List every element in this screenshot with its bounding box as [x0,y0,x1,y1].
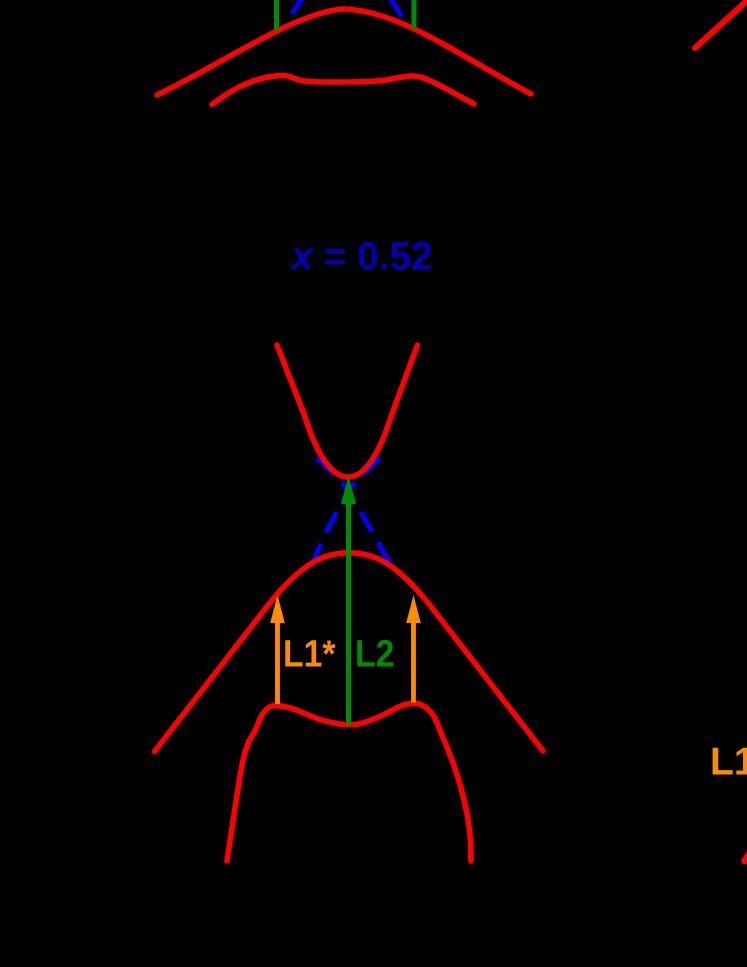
orange arrow L1* left: head [270,595,285,623]
middle panel: red lower valence band (M-shaped) [227,703,471,861]
middle panel: blue dashed massless cone line (upper-right to lower-left) [313,458,380,563]
svg-text:L1: L1 [710,741,747,784]
green arrow L2: shaft [346,500,351,725]
top panel: green arrow shaft left (cut off at top) [274,0,279,30]
top panel: blue dashed cone segment right [390,0,403,17]
orange arrow L1* right: shaft [411,620,416,703]
top panel: green arrow shaft right (cut off at top) [412,0,417,29]
middle panel: blue dashed massless cone line (upper-left to lower-right) [317,458,393,569]
orange arrow L1* left: shaft [275,620,280,704]
orange arrow L1* right: head [406,595,421,623]
top panel: red lower (heavy) band wavy curve [212,75,474,104]
top panel: red upper valence band curve [157,9,531,95]
green arrow L2: head [341,475,356,504]
top-right corner: red band segment from adjacent panel [695,0,747,48]
svg-text:L1*: L1* [283,634,336,676]
bottom-right: red band stub of adjacent panel [745,853,747,861]
svg-text:L2: L2 [355,634,395,676]
svg-text:x = 0.52: x = 0.52 [290,235,433,279]
middle panel: red upper valence band (broad inverted parabola) [155,553,544,752]
middle panel: red conduction band parabola [277,345,418,477]
top panel: blue dashed cone segment left [292,0,304,14]
